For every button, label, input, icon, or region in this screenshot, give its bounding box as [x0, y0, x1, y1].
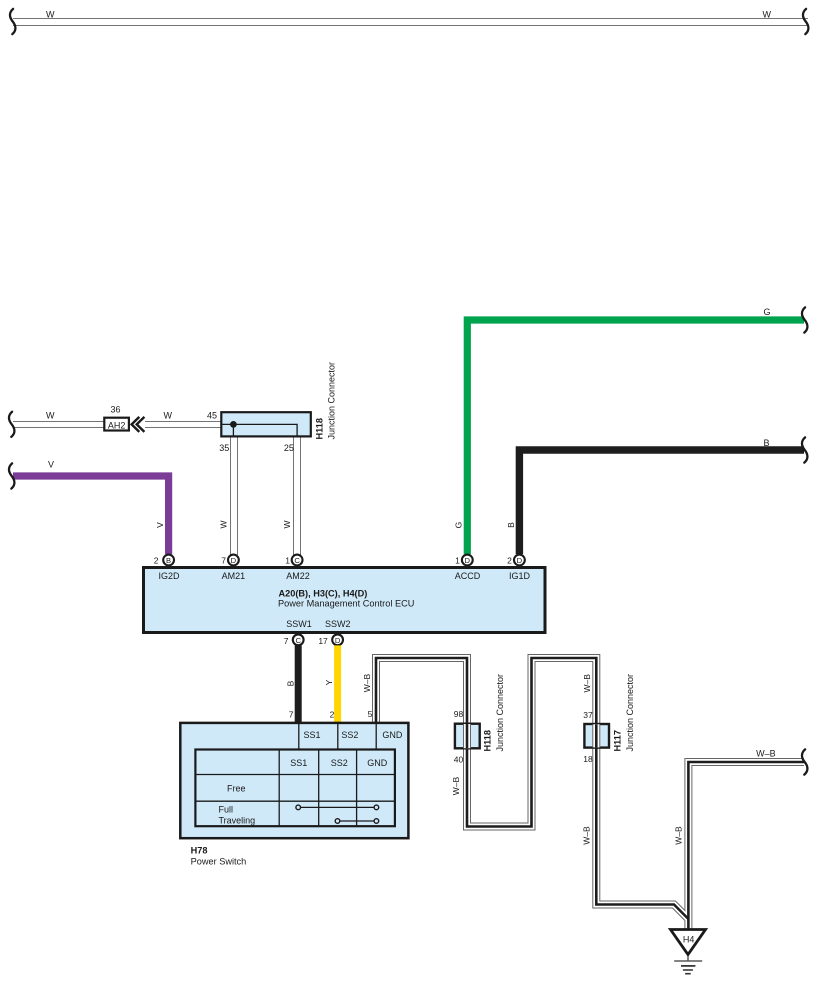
svg-text:A20(B), H3(C), H4(D): A20(B), H3(C), H4(D) [279, 589, 368, 599]
svg-text:H118: H118 [315, 418, 325, 439]
pin 1(D) ACCD [455, 555, 481, 581]
svg-text:40: 40 [454, 755, 464, 765]
svg-text:GND: GND [382, 730, 403, 740]
svg-text:2: 2 [507, 556, 512, 566]
wire B black from IG1D to break right [519, 450, 804, 554]
switch contact SS2-GND [335, 819, 379, 824]
svg-text:37: 37 [583, 710, 593, 720]
svg-text:AM21: AM21 [222, 571, 246, 581]
svg-text:Junction Connector: Junction Connector [625, 674, 635, 752]
svg-text:W: W [763, 10, 772, 20]
svg-text:ACCD: ACCD [455, 571, 481, 581]
wire G green from ACCD to break right [467, 320, 804, 554]
svg-text:B: B [764, 438, 770, 448]
svg-text:GND: GND [367, 758, 388, 768]
svg-text:W: W [164, 411, 173, 421]
wire B black SSW1 down to switch [295, 645, 302, 723]
svg-text:C: C [294, 556, 300, 565]
svg-text:B: B [506, 522, 516, 528]
svg-text:IG1D: IG1D [509, 571, 531, 581]
ground symbol [674, 956, 702, 974]
junction connector H118 box (lower) [455, 724, 480, 749]
wire W from chevron to H118 pin 45 (double line) [145, 421, 222, 428]
ECU A20(B) H3(C) H4(D) box [144, 568, 546, 633]
svg-text:H117: H117 [612, 730, 622, 751]
pin 17(D) SSW2 bottom [318, 634, 343, 646]
svg-text:H4: H4 [683, 935, 695, 945]
svg-text:17: 17 [318, 636, 328, 646]
svg-text:Junction Connector: Junction Connector [327, 362, 337, 440]
svg-text:1: 1 [455, 556, 460, 566]
switch contact SS1-GND [296, 805, 379, 810]
svg-text:SS1: SS1 [304, 730, 321, 740]
svg-text:C: C [295, 636, 301, 645]
svg-text:7: 7 [284, 636, 289, 646]
svg-text:SS2: SS2 [341, 730, 358, 740]
wire Y yellow SSW2 down to switch [334, 645, 341, 723]
pin 2(B) IG2D [154, 555, 180, 581]
switch inner table [195, 750, 395, 827]
pin 7(C) SSW1 bottom [284, 634, 304, 646]
svg-text:W: W [219, 520, 229, 528]
svg-text:W–B: W–B [756, 749, 776, 759]
break symbol top right [803, 9, 808, 34]
svg-text:W–B: W–B [581, 826, 591, 845]
svg-text:Power Switch: Power Switch [191, 857, 247, 867]
svg-text:2: 2 [154, 556, 159, 566]
svg-text:V: V [155, 522, 165, 528]
svg-text:35: 35 [219, 443, 229, 453]
svg-text:D: D [517, 556, 523, 565]
svg-text:D: D [465, 556, 471, 565]
break symbol W-B right [802, 749, 807, 774]
svg-text:7: 7 [289, 710, 294, 720]
switch pin cell dividers [299, 723, 376, 750]
svg-text:18: 18 [583, 754, 593, 764]
ground H4 triangle [671, 930, 706, 955]
pin 1(C) AM22 [285, 555, 309, 581]
svg-text:W: W [46, 411, 55, 421]
bus bar inside H118 [222, 424, 297, 436]
svg-text:W–B: W–B [451, 776, 461, 795]
wire W from H118 pin 35 down to AM21 (double line) [230, 436, 238, 555]
svg-text:2: 2 [330, 710, 335, 720]
svg-text:36: 36 [111, 405, 121, 415]
svg-text:25: 25 [284, 443, 294, 453]
power switch H78 box [180, 723, 408, 838]
svg-text:Junction Connector: Junction Connector [495, 674, 505, 752]
junction connector H117 box [584, 724, 609, 748]
svg-text:IG2D: IG2D [158, 571, 180, 581]
pin 2(D) IG1D [507, 555, 530, 581]
connector AH2 box [104, 418, 129, 431]
svg-text:SS2: SS2 [331, 758, 348, 768]
junction dot on bus [230, 421, 237, 428]
wire W into AH2 (double line) [13, 421, 104, 428]
chevron shield symbol [132, 417, 145, 432]
svg-text:Traveling: Traveling [219, 816, 256, 826]
break symbol V left [9, 463, 14, 488]
svg-text:G: G [764, 307, 771, 317]
svg-text:H78: H78 [191, 846, 208, 856]
svg-text:Full: Full [219, 805, 234, 815]
wire W top bus (double line) [13, 18, 808, 26]
break symbol G right [802, 307, 807, 332]
break symbol B right [802, 437, 807, 462]
svg-text:1: 1 [285, 556, 290, 566]
junction connector H118 box (top) [221, 412, 310, 436]
break symbol AH2 left [9, 412, 14, 437]
wire W from H118 pin 25 down to AM22 (double line) [293, 436, 301, 555]
wire W-B through H117 box [592, 724, 600, 747]
svg-text:SSW2: SSW2 [325, 619, 351, 629]
svg-text:D: D [335, 636, 341, 645]
svg-text:W–B: W–B [582, 674, 592, 693]
break symbol top left [10, 9, 15, 34]
svg-text:Power Management Control ECU: Power Management Control ECU [278, 599, 414, 609]
wire W-B network: GND pin5 to H118-98; H118-40 to H117-37; H117-18 to ground; right break to ground [376, 658, 805, 929]
svg-text:SSW1: SSW1 [286, 619, 312, 629]
svg-text:7: 7 [221, 556, 226, 566]
svg-text:45: 45 [207, 411, 217, 421]
wire V violet from break to IG2D [13, 476, 169, 554]
svg-text:W–B: W–B [673, 826, 683, 845]
svg-text:98: 98 [454, 709, 464, 719]
svg-text:W–B: W–B [362, 673, 372, 692]
svg-text:Free: Free [227, 784, 246, 794]
svg-text:B: B [286, 680, 296, 686]
svg-text:W: W [282, 520, 292, 528]
svg-text:G: G [454, 522, 464, 529]
svg-text:Y: Y [324, 679, 334, 685]
svg-text:AM22: AM22 [286, 571, 310, 581]
svg-text:AH2: AH2 [108, 420, 126, 430]
svg-text:B: B [166, 556, 171, 565]
svg-text:SS1: SS1 [290, 758, 307, 768]
svg-text:V: V [48, 460, 54, 470]
svg-text:D: D [231, 556, 237, 565]
svg-text:W: W [46, 10, 55, 20]
pin 7(D) AM21 [221, 555, 245, 581]
svg-text:H118: H118 [483, 730, 493, 751]
svg-text:5: 5 [368, 709, 373, 719]
wire W-B through H118 lower box [463, 724, 471, 748]
